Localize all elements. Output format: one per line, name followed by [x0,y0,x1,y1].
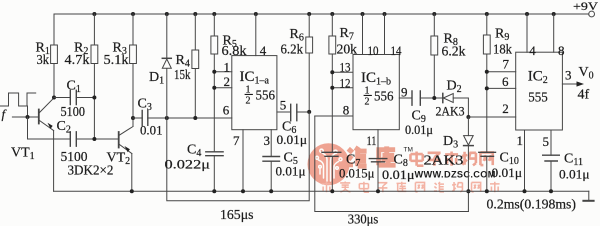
label IC2 555 [528,69,548,106]
node D3 ground junction [466,189,470,193]
resistor R9 [483,14,490,152]
svg-text:IC1–a: IC1–a [240,69,270,87]
svg-text:0.01μ: 0.01μ [492,165,523,180]
diode D3 [464,117,474,212]
timer U3 IC2 555 box [516,52,563,130]
node C6/R6 junction [307,110,311,114]
label C2 5100 [57,119,88,165]
svg-text:10: 10 [368,43,379,58]
resistor R2 [91,14,98,139]
wire IC2 pin 5 [550,130,552,155]
svg-text:2: 2 [365,97,370,108]
svg-text:0.01μ: 0.01μ [276,164,306,179]
wire IC1-a pin 3 [270,130,272,157]
wire base node drop to C2 [28,117,71,139]
label C8 0.01u [382,153,415,183]
svg-text:5100: 5100 [61,105,86,120]
resistor R6 [306,14,313,112]
svg-text:4: 4 [260,43,267,58]
label C6 0.01u [277,120,308,148]
svg-text:3k: 3k [37,53,50,68]
svg-text:6.8k: 6.8k [222,44,247,59]
wire trigger node to IC1-a pin 6 [167,117,232,119]
svg-text:18k: 18k [493,43,512,58]
wire IC1-b pin 8 [315,115,353,117]
wire 330us measurement bracket [315,116,469,212]
capacitor C4 [206,152,223,191]
node pin12 junction [330,86,334,90]
capacitor C10 [479,152,496,191]
watermark brand characters [347,146,396,166]
svg-text:7: 7 [233,133,240,148]
svg-text:6.2k: 6.2k [442,45,466,60]
svg-text:8: 8 [558,43,565,58]
svg-text:0.01: 0.01 [140,123,163,138]
svg-text:555: 555 [528,91,548,106]
svg-text:2AK3: 2AK3 [436,104,465,119]
svg-text:0.022μ: 0.022μ [165,157,211,172]
svg-text:R9: R9 [495,27,509,44]
wire IC1-a pin 1 [214,71,232,73]
resistor R4 [192,14,199,118]
input square wave symbol [0,93,36,117]
resistor R7 [329,14,336,152]
wire +9V top supply rail [54,13,589,15]
svg-text:IC2: IC2 [528,69,548,87]
wire IC1-b pin 10 [362,14,364,55]
transistor VT2 [119,118,133,154]
svg-text:f: f [2,107,8,122]
node pin6 junction [485,86,489,90]
svg-text:7: 7 [503,57,510,72]
wire 165us measurement bracket [167,112,309,201]
capacitor C5 [263,157,280,192]
watermark logo disc [308,143,350,185]
label R6 6.2k [281,27,304,58]
svg-text:3: 3 [565,68,572,83]
wire IC1-b pin 11 [377,130,379,159]
wire IC1-a pin 2 [214,87,232,89]
svg-text:0.2ms(0.198ms): 0.2ms(0.198ms) [487,197,577,212]
svg-text:165μs: 165μs [220,208,254,223]
label C7 0.015u [339,153,375,181]
svg-text:6.2k: 6.2k [281,43,304,58]
svg-text:R7: R7 [340,26,354,43]
node D1 junction [165,116,169,120]
svg-text:556: 556 [256,89,276,104]
wire IC2 pin 1 to ground [524,130,526,191]
svg-text:3DK2×2: 3DK2×2 [68,164,114,179]
label R5 6.8k [222,34,247,60]
capacitor C9 [412,91,443,105]
node D2/D3/pin2 junction [466,115,470,119]
wire VT2 emitter to ground rail [131,154,133,192]
node R8/D2 junction [432,96,436,100]
svg-text:D2: D2 [447,79,462,96]
label C4 0.022u [165,143,211,172]
svg-text:20k: 20k [337,43,358,58]
node C2/R2/VT2 base junction [92,137,96,141]
label IC2 pin numbers [502,43,572,149]
resistor R5 [211,14,218,152]
svg-text:1: 1 [224,60,231,75]
label D3 2AK3 [424,134,464,169]
svg-text:5.1k: 5.1k [104,53,129,68]
label R1 3k [36,41,50,69]
svg-text:0.01μ: 0.01μ [382,167,415,182]
svg-text:13: 13 [340,60,351,75]
svg-text:4: 4 [529,43,536,58]
label C5 0.01u [276,151,306,179]
diode D2 [443,93,469,117]
svg-text:C1: C1 [67,79,81,96]
svg-text:1: 1 [246,85,251,96]
label C11 0.01u [559,152,590,182]
svg-text:0.01μ: 0.01μ [405,122,433,137]
wire IC2 pin 3 output arrow [562,81,584,86]
resistor R8 [431,14,438,98]
wire IC1-b pin 12 [332,87,353,89]
label R2 4.7k [65,41,90,69]
op-amp U2 IC1-b box [353,55,399,130]
node rail junction dots [92,12,555,16]
svg-text:V0: V0 [579,65,594,82]
svg-text:0.01μ: 0.01μ [559,167,590,182]
label R7 20k [337,26,358,58]
label R3 5.1k [104,41,129,69]
node VT1 collector junction [52,96,56,100]
svg-text:3: 3 [264,133,271,148]
label IC1-b half 556 [361,70,394,108]
label C9 0.01u [405,109,433,138]
label D2 2AK3 [436,79,465,119]
svg-text:2: 2 [502,101,509,116]
wire IC1-a pin 5 output [277,111,291,113]
wire IC2 pin 7 [487,71,516,73]
wire IC1-b pin 14 [384,14,386,55]
capacitor C3 [133,111,167,126]
label IC1-a pin numbers [223,43,286,148]
label C10 0.01u [492,151,523,181]
node ground rail junction dots [130,189,553,193]
node VT2 collector junction [131,116,135,120]
svg-text:D1: D1 [149,70,164,87]
svg-text:D3: D3 [443,134,458,151]
svg-text:2: 2 [224,74,231,89]
capacitor C11 [543,155,560,191]
label C1 5100 [61,79,86,121]
svg-text:0.015μ: 0.015μ [339,166,375,181]
svg-text:2: 2 [246,96,251,107]
svg-text:6: 6 [502,74,509,89]
svg-text:1: 1 [517,133,524,148]
capacitor C8 [369,159,387,192]
resistor R1 [51,14,58,98]
capacitor C7 [322,152,341,191]
svg-text:WWW.DZSC.COM: WWW.DZSC.COM [415,170,496,180]
capacitor C1 [54,90,94,104]
wire IC2 pin 6 [487,87,516,89]
svg-text:2AK3: 2AK3 [424,154,464,169]
watermark slogan characters [322,181,500,192]
svg-text:C3: C3 [138,97,152,114]
wire IC2 pin 8 [553,14,555,52]
capacitor C6 [291,104,310,120]
ground symbol [583,191,593,201]
svg-text:11: 11 [367,133,377,148]
svg-text:4f: 4f [578,88,590,103]
wire ground bottom rail [54,190,589,192]
svg-text:+9V: +9V [573,0,598,13]
node R4 junction [193,116,197,120]
wire IC1-a pin 7 to ground [242,130,244,192]
svg-text:VT1: VT1 [11,146,35,163]
label R9 18k [493,27,512,58]
op-amp U1 IC1-a box [232,56,277,130]
diode D1 [162,14,171,118]
svg-text:556: 556 [374,90,394,105]
wire input f [12,116,38,118]
svg-text:6: 6 [223,103,230,118]
capacitor C2 [70,132,76,146]
label R8 6.2k [442,32,466,60]
svg-text:9: 9 [401,85,408,100]
wire to IC2 pin 2 [468,116,515,118]
+9V terminal [589,11,595,17]
node C1 right junction [92,96,96,100]
svg-text:330μs: 330μs [348,213,379,227]
node pin7 junction [485,70,489,74]
svg-text:4.7k: 4.7k [65,53,90,68]
resistor R3 [130,14,137,118]
label IC1-b pin numbers [340,43,408,148]
wire IC1-b pin 13 [332,71,353,73]
label R4 15k [174,53,191,83]
wire C2 to VT2 base node [76,138,118,140]
svg-text:8: 8 [343,103,350,118]
wire IC2 pin 4 [526,14,528,52]
transistor VT1 [39,98,54,131]
label C3 0.01 [138,97,163,138]
node pin2 junction [212,86,216,90]
node input junction [26,115,30,119]
svg-text:C2: C2 [57,119,71,136]
svg-text:14: 14 [391,43,402,58]
wire IC1-a pin 4 [255,14,257,56]
svg-text:15k: 15k [174,68,191,83]
svg-text:12: 12 [340,76,351,91]
svg-text:5: 5 [543,134,550,149]
svg-text:0.01μ: 0.01μ [277,132,308,147]
watermark site name characters [410,151,492,165]
label V0 output [578,65,594,103]
svg-text:R6: R6 [290,27,304,44]
svg-text:1: 1 [365,86,370,97]
wire VT1 emitter to ground rail [53,131,55,192]
wire IC1-b pin 9 output [399,97,412,99]
svg-text:5: 5 [280,98,287,113]
node pin13 junction [330,70,334,74]
label IC1-a half 556 [240,69,276,107]
svg-text:TM: TM [404,147,413,154]
node pin1 junction [212,70,216,74]
